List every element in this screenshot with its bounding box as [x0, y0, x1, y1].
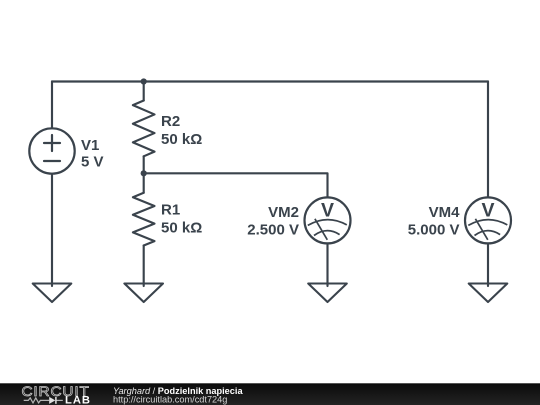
wire V1 bottom — [51, 174, 53, 286]
svg-text:VM2: VM2 — [268, 204, 299, 221]
resistor R2 — [133, 101, 155, 157]
wire V1 top — [51, 82, 53, 129]
wire middle rail to VM2 — [144, 173, 328, 197]
svg-text:VM4: VM4 — [429, 204, 461, 221]
svg-text:V: V — [481, 199, 494, 221]
svg-text:5 V: 5 V — [81, 153, 104, 170]
wire top rail — [52, 80, 488, 82]
wire VM4 top — [487, 82, 489, 198]
svg-text:5.000 V: 5.000 V — [408, 222, 460, 239]
wire R1 top stub — [143, 173, 145, 193]
ground (VM2) — [308, 284, 347, 303]
svg-text:R1: R1 — [161, 202, 180, 219]
voltmeter VM2 — [305, 197, 351, 243]
wire R1 bottom stub — [143, 246, 145, 287]
footer bar — [0, 383, 540, 405]
svg-text:2.500 V: 2.500 V — [247, 222, 299, 239]
logo diode — [49, 397, 56, 404]
wire R2 bottom stub — [143, 156, 145, 173]
resistor R1 — [133, 193, 155, 246]
wire VM4 bottom — [487, 243, 489, 286]
node A top junction — [141, 78, 147, 84]
node B middle junction — [141, 170, 147, 176]
svg-text:http://circuitlab.com/cdt724g: http://circuitlab.com/cdt724g — [113, 395, 227, 405]
voltage source V1 — [29, 128, 74, 173]
svg-text:50 kΩ: 50 kΩ — [161, 219, 202, 236]
logo wire doodle — [24, 398, 63, 403]
wire VM2 bottom — [326, 243, 328, 286]
svg-text:R2: R2 — [161, 113, 180, 130]
svg-text:50 kΩ: 50 kΩ — [161, 131, 202, 148]
svg-text:V: V — [321, 199, 334, 221]
svg-text:LAB: LAB — [65, 395, 91, 405]
ground (VM4) — [469, 284, 508, 303]
ground (V1) — [33, 284, 72, 303]
ground (R1) — [124, 284, 163, 303]
wire R2 top stub — [143, 82, 145, 101]
svg-text:V1: V1 — [81, 137, 99, 154]
voltmeter VM4 — [465, 197, 511, 243]
